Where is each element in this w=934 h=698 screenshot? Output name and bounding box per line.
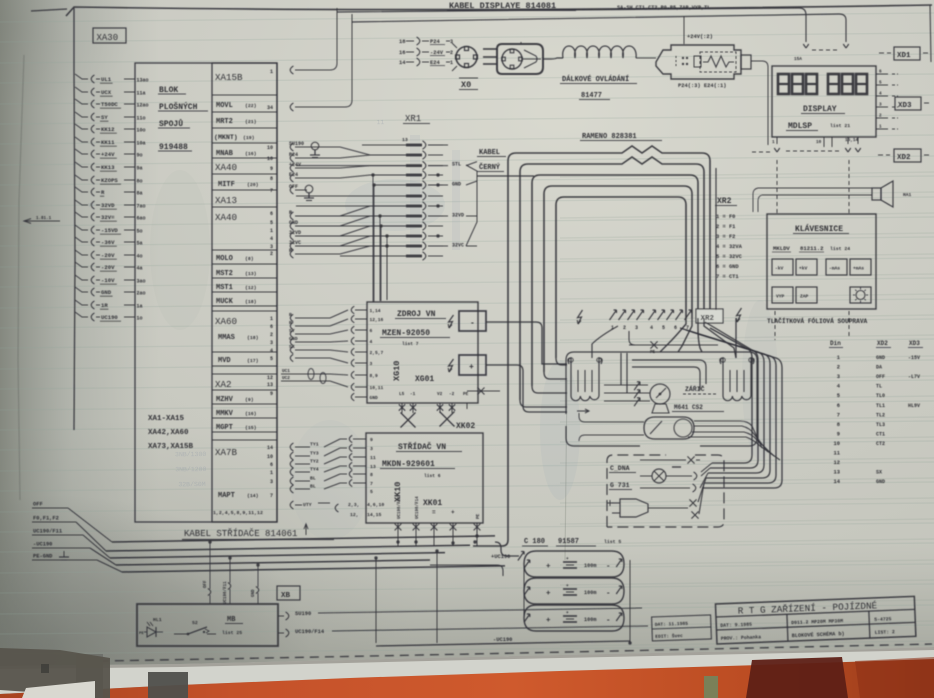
svg-text:6: 6 — [270, 324, 273, 330]
wire UL1 to BLOK box — [124, 78, 135, 80]
bus PE to right — [430, 564, 497, 566]
chassis ground at SU190 — [311, 142, 319, 150]
svg-text:-20V: -20V — [101, 264, 115, 271]
svg-text:12: 12 — [834, 460, 840, 466]
svg-text:P24: P24 — [289, 152, 298, 158]
label XD2 — [878, 154, 890, 156]
divider — [212, 142, 277, 144]
wire OFF — [290, 186, 293, 194]
wire lamp row — [640, 475, 652, 477]
svg-text:8: 8 — [270, 176, 273, 182]
wire KK11 from left border — [75, 137, 88, 142]
wire R — [290, 212, 293, 220]
label XD3 — [895, 97, 921, 110]
wires from XR1 down to ZDROJ VN top — [372, 175, 374, 302]
remote pendant P24 E24 — [656, 45, 741, 79]
svg-text:PE: PE — [650, 351, 656, 355]
svg-text:14,15: 14,15 — [367, 512, 382, 518]
svg-text:(18): (18) — [247, 335, 259, 341]
svg-text:4o: 4o — [137, 253, 143, 259]
lamp symbol — [652, 469, 666, 483]
connector pin T50DC — [91, 100, 94, 108]
svg-text:10a: 10a — [137, 140, 146, 146]
wire GND — [290, 222, 293, 230]
arm cable arch 4 — [544, 186, 692, 372]
svg-text:XD1: XD1 — [897, 52, 911, 60]
connector pin KK12 — [91, 125, 94, 133]
lightning at plus — [449, 359, 454, 372]
svg-text:MUCK: MUCK — [216, 298, 234, 306]
svg-text:KK11: KK11 — [101, 139, 115, 146]
svg-text:F0,F1,F2: F0,F1,F2 — [33, 516, 59, 522]
x-ray tube socket right — [720, 358, 723, 396]
connector pin KZOPS — [91, 176, 94, 184]
svg-text:PE: PE — [139, 632, 144, 636]
battery G2 terminals — [524, 587, 530, 595]
svg-text:6: 6 — [270, 211, 273, 217]
block STRIDAC VN MKDN-929601 outline — [366, 433, 483, 523]
svg-text:1: 1 — [879, 125, 882, 130]
svg-text:10: 10 — [267, 145, 273, 151]
svg-text:+: + — [469, 363, 474, 372]
PE line across radiator — [629, 344, 718, 346]
wire T50DC from left border — [75, 99, 88, 104]
connector XR1 pin row 11 — [296, 245, 406, 247]
svg-text:1: 1 — [270, 69, 273, 75]
svg-text:-15V: -15V — [908, 355, 920, 361]
svg-text:7: 7 — [837, 412, 840, 418]
svg-text:2ao: 2ao — [137, 290, 146, 296]
wire SU190 — [290, 143, 293, 151]
svg-text:XB: XB — [281, 592, 291, 600]
pin 10,11 of ZDROJ VN — [355, 386, 367, 388]
pin GND of ZDROJ VN — [355, 396, 367, 398]
wire -15VD from left border — [75, 225, 88, 230]
svg-text:9a: 9a — [137, 165, 143, 171]
svg-text:13: 13 — [267, 382, 273, 388]
svg-text:81477: 81477 — [581, 92, 602, 100]
svg-text:3: 3 — [370, 361, 373, 367]
wire E24 — [290, 174, 293, 182]
wire into right socket — [735, 318, 737, 358]
key -mAs — [826, 259, 847, 275]
battery G1 terminals — [524, 560, 530, 568]
label XR2 boxed — [696, 309, 723, 323]
svg-text:+: + — [546, 563, 551, 571]
ground symbol PE-GND — [63, 551, 65, 557]
svg-text:-20V: -20V — [101, 252, 115, 259]
svg-text:list 7: list 7 — [402, 341, 419, 347]
svg-text:TL0: TL0 — [876, 393, 885, 399]
svg-text:8: 8 — [837, 422, 840, 428]
block MB list 25 outline — [137, 604, 278, 646]
svg-text:32VD: 32VD — [452, 213, 464, 219]
svg-text:-2: -2 — [449, 392, 455, 397]
svg-text:5a: 5a — [137, 240, 143, 246]
display bottom pins — [776, 137, 778, 144]
seven segment digits group 2 — [828, 74, 839, 94]
svg-text:MZEN-92050: MZEN-92050 — [382, 329, 430, 338]
svg-text:UC190/F11: UC190/F11 — [33, 529, 62, 535]
svg-text:3: 3 — [270, 340, 273, 346]
dashed link below display — [752, 151, 772, 153]
fan from arches to sockets — [660, 318, 686, 352]
svg-text:14: 14 — [399, 60, 406, 66]
svg-text:+kV: +kV — [799, 266, 808, 272]
pin 3 of ZDROJ VN — [355, 362, 367, 364]
svg-text:9o: 9o — [137, 152, 143, 158]
wire 32V= to BLOK box — [124, 216, 135, 218]
wire 32VC — [290, 242, 293, 250]
battery G3 terminals — [524, 614, 530, 622]
svg-text:C_DNA: C_DNA — [610, 465, 630, 472]
svg-text:R: R — [289, 210, 292, 216]
svg-text:10o: 10o — [137, 127, 146, 133]
svg-text:HL9V: HL9V — [908, 403, 920, 409]
output UC190/F14 — [278, 632, 284, 634]
svg-text:10,11: 10,11 — [370, 385, 384, 391]
svg-text:KLÁVESNICE: KLÁVESNICE — [795, 225, 843, 234]
key +mAs — [850, 259, 871, 275]
vertical wire through XR2 — [715, 168, 717, 310]
collimator capsule — [644, 417, 694, 439]
svg-text:MAPT: MAPT — [218, 492, 235, 500]
svg-text:4,6,10: 4,6,10 — [367, 502, 384, 508]
svg-text:2,3,: 2,3, — [348, 502, 360, 508]
-UC190 bottom rail — [376, 641, 630, 646]
bus A bend down to +UC190 — [495, 528, 505, 552]
wire KK12 from left border — [75, 124, 88, 129]
svg-text:12: 12 — [267, 375, 273, 381]
column GND into MB — [257, 565, 259, 587]
battery interconnect left — [523, 566, 525, 616]
arrow to sheet 1.81.1 — [24, 220, 60, 222]
svg-text:6ao: 6ao — [137, 215, 146, 221]
svg-text:XA60: XA60 — [215, 316, 237, 327]
bus B joins stridac pins — [396, 540, 399, 543]
svg-text:+UC190: +UC190 — [491, 554, 510, 560]
vertical to -UC190 rail — [375, 558, 377, 643]
svg-text:1o: 1o — [137, 315, 143, 321]
chassis ground at OFF — [305, 185, 313, 193]
svg-text:3NB/1200: 3NB/1200 — [175, 466, 206, 473]
wire top contact with cut — [640, 459, 686, 461]
svg-text:(16): (16) — [245, 151, 257, 157]
connector pin UL1 — [91, 75, 94, 83]
svg-text:MOLO: MOLO — [216, 255, 233, 263]
svg-text:8a: 8a — [137, 190, 143, 196]
svg-text:PE: PE — [477, 513, 481, 519]
svg-text:13: 13 — [402, 137, 408, 143]
svg-text:10: 10 — [816, 140, 822, 145]
cable wire 4 down right side — [692, 332, 770, 478]
svg-text:UC190/F14: UC190/F14 — [415, 496, 420, 519]
svg-text:32V=: 32V= — [101, 214, 115, 221]
svg-text:MRT2: MRT2 — [216, 118, 233, 126]
svg-text:8,9: 8,9 — [370, 373, 379, 379]
svg-text:(19): (19) — [243, 135, 255, 141]
svg-text:GND: GND — [101, 289, 112, 296]
wire +24V — [290, 164, 293, 172]
lightning left — [578, 310, 583, 324]
svg-text:XA2: XA2 — [215, 379, 232, 390]
svg-text:3: 3 — [270, 244, 273, 250]
svg-text:KABEL: KABEL — [479, 149, 500, 157]
wire GND to BLOK box — [124, 291, 135, 293]
x-ray tube socket left — [568, 358, 571, 396]
svg-text:12,16: 12,16 — [370, 317, 384, 323]
svg-text:7 = CT1: 7 = CT1 — [716, 274, 739, 280]
svg-text:SA-SH,CT1,CT2,P0-P5,ZAP,VYP,TL: SA-SH,CT1,CT2,P0-P5,ZAP,VYP,TL — [617, 5, 710, 11]
wire XA15B pin1 to top cable — [290, 66, 293, 74]
connector XR1 pin row 9 — [296, 225, 406, 227]
paper crease left — [18, 55, 24, 500]
wire coil to pendant — [636, 57, 656, 59]
svg-text:TL1: TL1 — [876, 403, 885, 409]
svg-text:UC190/F11: UC190/F11 — [397, 496, 402, 519]
divider — [212, 173, 277, 175]
pin 2,5,7 of ZDROJ VN — [355, 351, 367, 353]
svg-text:XK02: XK02 — [456, 422, 475, 431]
svg-text:+24V: +24V — [289, 162, 301, 168]
svg-text:list 6: list 6 — [424, 473, 441, 479]
divider — [212, 263, 277, 265]
battery G2 box — [524, 578, 624, 604]
wire 1R to BLOK box — [124, 304, 135, 306]
connector XR1 pin row 6 — [296, 195, 406, 197]
svg-text:-: - — [606, 590, 611, 598]
svg-text:3NB/1300: 3NB/1300 — [175, 451, 206, 458]
svg-text:16: 16 — [399, 50, 405, 56]
svg-text:TL2: TL2 — [876, 412, 885, 418]
wire 32V= from left border — [75, 212, 88, 217]
connector pin 32VD — [91, 201, 94, 209]
arrow mark under left socket — [577, 410, 589, 412]
divider — [212, 189, 277, 191]
wire 1R from left border — [75, 300, 88, 305]
svg-text:100m: 100m — [584, 590, 596, 596]
svg-text:SY: SY — [289, 328, 295, 334]
svg-text:5 = 32VC: 5 = 32VC — [716, 254, 743, 260]
dashed wire display to keyboard left — [776, 160, 778, 213]
svg-text:1: 1 — [772, 140, 775, 145]
svg-text:VYP: VYP — [776, 294, 785, 300]
svg-text:32B/S0M: 32B/S0M — [178, 481, 205, 488]
svg-text:12ao: 12ao — [137, 102, 149, 108]
wires under socket — [585, 421, 644, 423]
bus bend to battery — [495, 533, 503, 550]
cut slashes group 4-7 — [649, 310, 656, 320]
wire 32VD from left border — [75, 200, 88, 205]
svg-text:2: 2 — [270, 332, 273, 338]
connector XR1 pin row 10 — [296, 235, 406, 237]
svg-text:1,14: 1,14 — [370, 308, 381, 314]
wire row 3 — [640, 487, 690, 489]
svg-text:10: 10 — [834, 441, 840, 447]
svg-text:GND: GND — [289, 336, 298, 342]
svg-text:MVD: MVD — [218, 357, 231, 365]
svg-text:UC190/F11: UC190/F11 — [223, 581, 228, 604]
svg-text:(17): (17) — [247, 358, 259, 364]
wire KK13 from left border — [75, 162, 88, 167]
svg-text:SPOJŮ: SPOJŮ — [159, 119, 183, 129]
second top cable run — [352, 14, 846, 42]
svg-text:1: 1 — [450, 60, 453, 66]
svg-text:KZOPS: KZOPS — [101, 177, 118, 184]
svg-text:1: 1 — [837, 355, 840, 361]
svg-text:SU190: SU190 — [295, 611, 311, 617]
cut slashes group 1-3 — [610, 310, 617, 320]
merge bracket to arm cable — [466, 165, 477, 246]
divider — [212, 373, 277, 375]
wire R to BLOK box — [124, 191, 135, 193]
svg-text:5: 5 — [370, 489, 373, 495]
svg-text:GND: GND — [289, 220, 298, 226]
svg-text:TL3: TL3 — [876, 422, 885, 428]
svg-text:BL: BL — [310, 476, 316, 482]
svg-text:C 180: C 180 — [524, 538, 545, 546]
wire KK13 to BLOK box — [124, 166, 135, 168]
svg-text:5: 5 — [879, 81, 882, 86]
svg-text:4: 4 — [270, 348, 273, 354]
wire -36V from left border — [75, 237, 88, 242]
svg-text:XD3: XD3 — [898, 102, 912, 110]
column UC190/F11 into MB — [229, 558, 231, 583]
divider — [212, 305, 277, 307]
svg-text:-: - — [606, 617, 611, 625]
svg-text:MMAS: MMAS — [218, 334, 235, 342]
svg-text:L5: L5 — [399, 392, 405, 397]
svg-text:1,2,4,5,8,9,11,12: 1,2,4,5,8,9,11,12 — [213, 510, 263, 516]
svg-text:P24: P24 — [430, 39, 440, 45]
svg-text:1: 1 — [270, 470, 273, 476]
wire UC190 from left border — [75, 312, 88, 317]
svg-text:XG01: XG01 — [415, 375, 434, 384]
connector pin +24V — [91, 150, 94, 158]
svg-text:MKLDV: MKLDV — [773, 245, 790, 252]
svg-text:11: 11 — [370, 455, 376, 461]
wires collimator to cable — [694, 421, 762, 448]
svg-text:ZDROJ VN: ZDROJ VN — [397, 310, 436, 319]
svg-text:3: 3 — [270, 479, 273, 485]
svg-text:4 = 32VA: 4 = 32VA — [716, 244, 743, 250]
wire R — [290, 250, 293, 258]
svg-text:list 24: list 24 — [830, 246, 850, 252]
key -kV — [772, 259, 793, 275]
pin 1,14 of ZDROJ VN — [355, 309, 367, 311]
svg-text:SX: SX — [289, 344, 295, 350]
divider — [212, 277, 277, 279]
svg-text:2: 2 — [879, 114, 882, 119]
svg-text:BL: BL — [310, 484, 316, 490]
svg-text:PLOŠNÝCH: PLOŠNÝCH — [159, 102, 198, 112]
svg-text:XA30: XA30 — [97, 33, 119, 43]
connector pin UCX — [91, 88, 94, 96]
svg-text:2,5,7: 2,5,7 — [370, 350, 384, 356]
svg-text:XA73,XA15B: XA73,XA15B — [148, 443, 194, 451]
svg-text:3: 3 — [879, 103, 882, 108]
svg-text:E24: E24 — [289, 172, 298, 178]
svg-text:ČERNÝ: ČERNÝ — [479, 162, 501, 172]
svg-text:MKDN-929601: MKDN-929601 — [382, 460, 435, 469]
svg-text:KABEL DISPLAYE 814081: KABEL DISPLAYE 814081 — [449, 1, 556, 11]
svg-text:MOVL: MOVL — [216, 102, 233, 110]
svg-text:MITF: MITF — [218, 181, 235, 189]
svg-text:HA1: HA1 — [903, 192, 912, 198]
battery G3 box — [524, 605, 624, 631]
display box MDLSP — [772, 66, 876, 137]
svg-text:3ao: 3ao — [137, 278, 146, 284]
svg-text:PE: PE — [463, 392, 469, 397]
block BLOK PLOSNYCH SPOJU 919488 outline — [135, 63, 277, 522]
divider — [212, 431, 277, 433]
svg-text:34: 34 — [267, 105, 273, 111]
vertical 437 to rail — [436, 551, 438, 643]
divider — [212, 389, 277, 391]
wire 32VD — [290, 232, 293, 240]
block KLAVESNICE outline — [767, 214, 876, 309]
wire UTY — [290, 501, 293, 509]
svg-text:GND: GND — [252, 589, 256, 597]
connector pin 1R — [91, 301, 94, 309]
wire +24V drop to pendant — [683, 16, 685, 44]
svg-text:(21): (21) — [245, 119, 257, 125]
svg-text:MST1: MST1 — [216, 284, 233, 292]
wire to coil — [543, 58, 563, 59]
svg-text:1.81.1: 1.81.1 — [36, 217, 52, 221]
label XB — [277, 586, 300, 600]
svg-text:HL1: HL1 — [153, 617, 162, 623]
speaker wires — [758, 187, 872, 189]
connector pin -20V — [91, 251, 94, 259]
wires XA60 rows to right — [290, 314, 293, 321]
connector XR1 pin row 2 — [375, 154, 406, 156]
svg-text:8: 8 — [370, 472, 373, 478]
wire -15VD to BLOK box — [124, 229, 135, 231]
wire KZOPS from left border — [75, 175, 88, 180]
svg-text:-L7V: -L7V — [908, 374, 920, 380]
svg-text:list 21: list 21 — [830, 123, 850, 129]
wire into left socket — [592, 326, 618, 358]
svg-text:5: 5 — [270, 220, 273, 226]
pin 12,16 of ZDROJ VN — [355, 318, 367, 320]
svg-text:DA: DA — [876, 365, 882, 371]
svg-text:2: 2 — [837, 365, 840, 371]
svg-text:(12): (12) — [245, 285, 257, 291]
wire -36V to BLOK box — [124, 241, 135, 243]
cable wire 2 down right side — [705, 322, 758, 468]
fan into C DNA contacts — [701, 463, 712, 472]
svg-text:+24V(:2): +24V(:2) — [687, 34, 713, 40]
svg-text:UCX: UCX — [101, 89, 112, 96]
connector pin -10V — [91, 276, 94, 284]
svg-text:15A: 15A — [794, 57, 802, 62]
svg-text:-: - — [606, 563, 611, 571]
arm cable arch 5 — [556, 197, 686, 358]
svg-text:S2: S2 — [192, 620, 198, 626]
svg-text:XA42,XA60: XA42,XA60 — [148, 429, 189, 437]
connector pin R — [91, 188, 94, 196]
connector pin 32V= — [91, 213, 94, 221]
svg-text:-: - — [470, 319, 475, 328]
svg-text:RAMENO 828381: RAMENO 828381 — [582, 133, 637, 141]
wire T50DC to BLOK box — [124, 103, 135, 105]
svg-text:5: 5 — [270, 356, 273, 362]
key ZAP — [796, 287, 817, 303]
svg-text:GND: GND — [876, 355, 885, 361]
svg-text:R: R — [289, 312, 292, 318]
svg-text:X0: X0 — [461, 80, 471, 90]
